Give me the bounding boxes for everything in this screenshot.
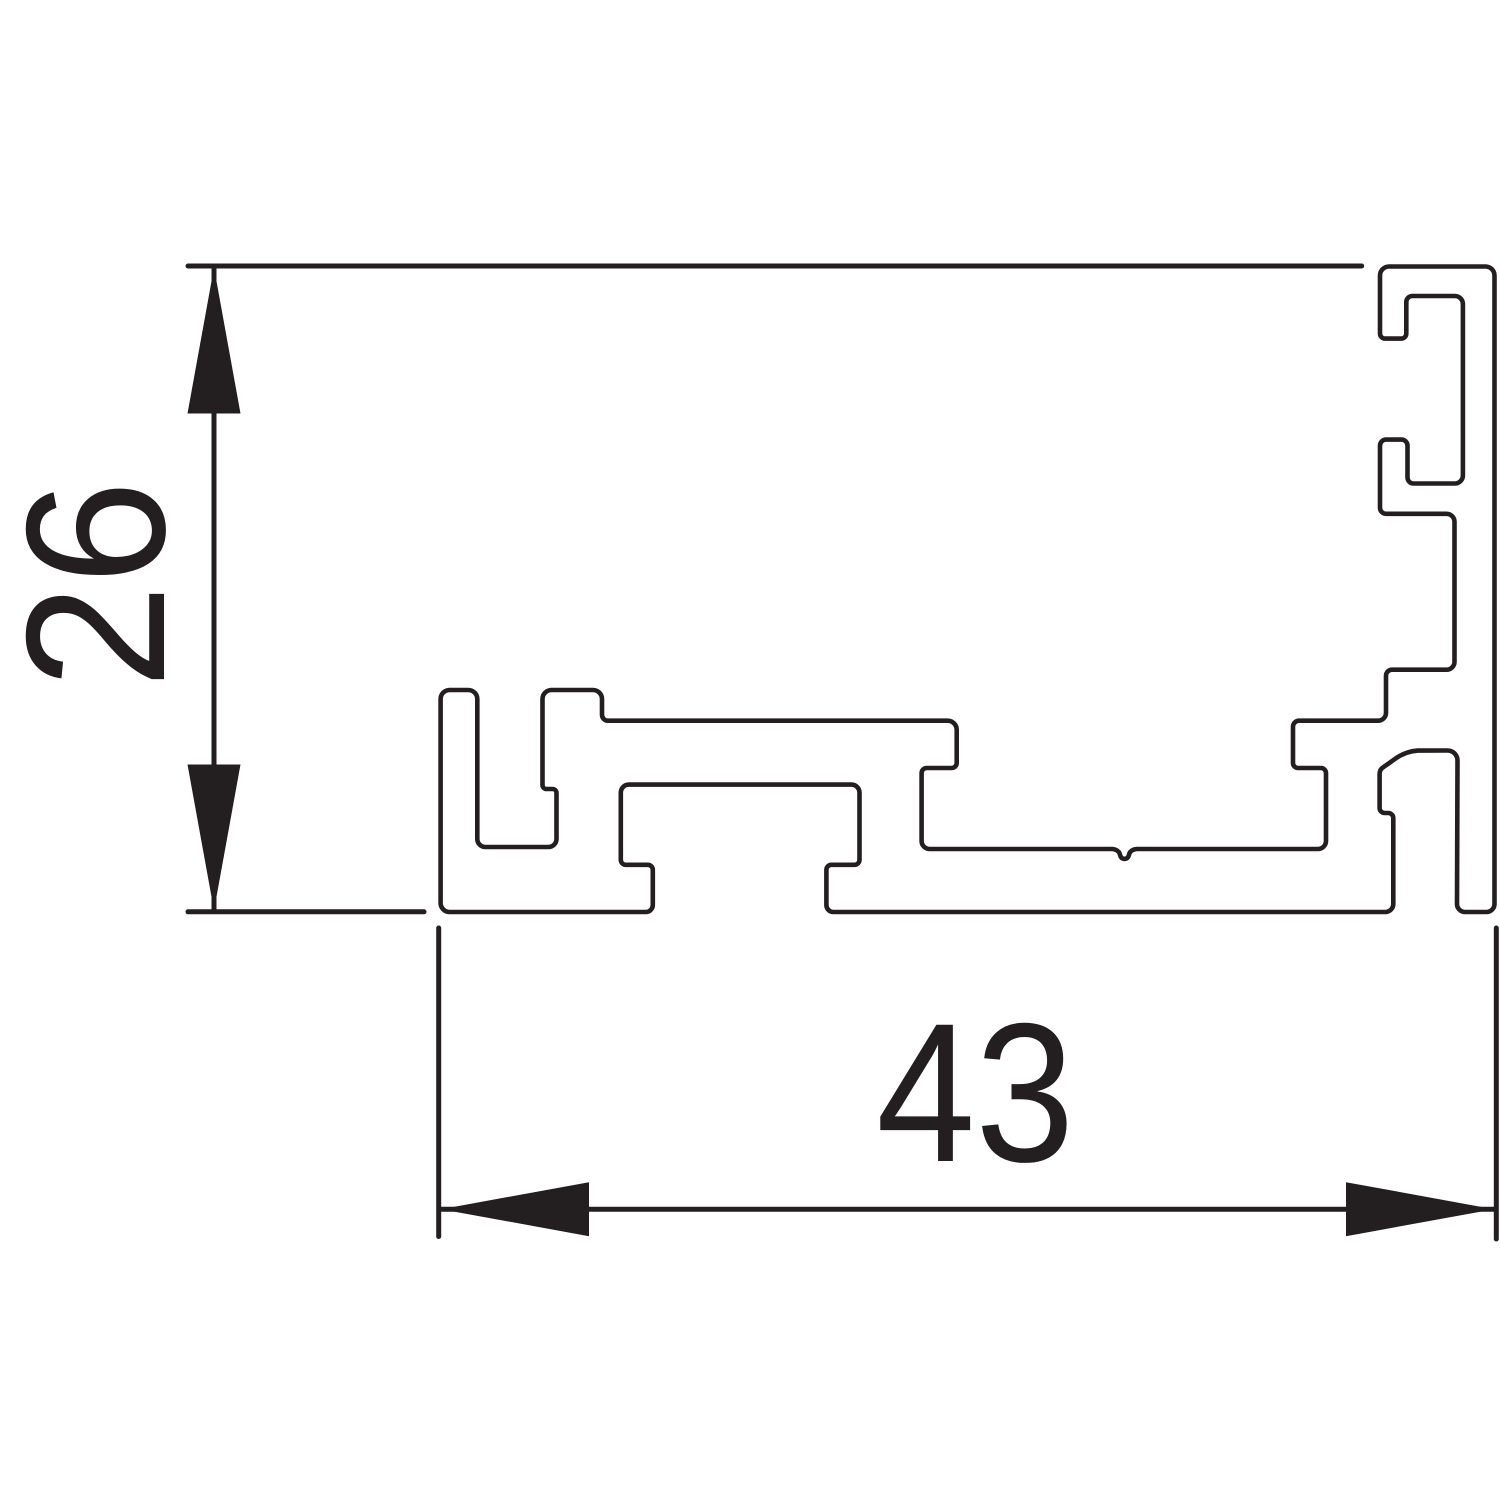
svg-text:43: 43 [876, 981, 1074, 1203]
dimension line 26 [212, 269, 217, 909]
arrowhead left [441, 1182, 589, 1236]
arrowhead right [1346, 1182, 1494, 1236]
extension line bottom-left [188, 909, 424, 914]
extension line 43 right [1494, 928, 1499, 1239]
extension line top [188, 264, 1362, 269]
extension line 43 left [436, 928, 441, 1237]
label 26 [0, 480, 206, 688]
arrowhead up [188, 268, 241, 414]
profile outline [441, 267, 1495, 913]
arrowhead down [188, 765, 241, 911]
label 43 [876, 981, 1074, 1203]
svg-text:26: 26 [0, 480, 206, 688]
dimension line 43 [441, 1207, 1494, 1212]
